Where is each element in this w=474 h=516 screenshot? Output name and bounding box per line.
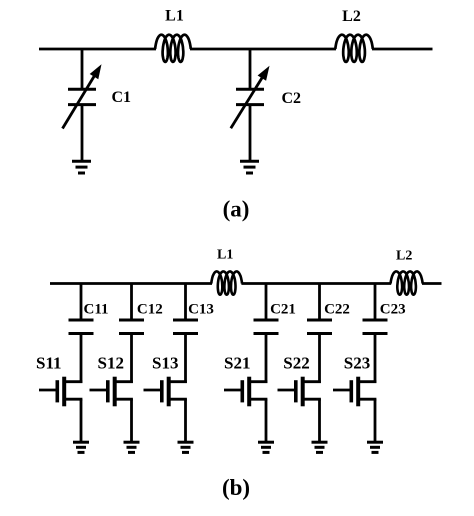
- svg-text:S23: S23: [344, 354, 370, 373]
- svg-text:S13: S13: [152, 354, 178, 373]
- svg-text:C22: C22: [324, 302, 350, 318]
- svg-text:S12: S12: [98, 354, 124, 373]
- svg-text:C23: C23: [380, 302, 406, 318]
- svg-text:(b): (b): [222, 475, 250, 500]
- svg-text:C13: C13: [188, 302, 214, 318]
- svg-text:S22: S22: [283, 354, 309, 373]
- svg-text:C21: C21: [270, 302, 296, 318]
- svg-text:L2: L2: [342, 8, 361, 25]
- svg-text:C1: C1: [112, 89, 132, 106]
- svg-text:C2: C2: [282, 90, 302, 107]
- svg-text:(a): (a): [223, 197, 250, 222]
- svg-text:C11: C11: [84, 302, 109, 318]
- svg-text:C12: C12: [137, 302, 163, 318]
- svg-text:L1: L1: [217, 248, 233, 263]
- svg-text:S21: S21: [224, 354, 250, 373]
- svg-text:L2: L2: [396, 249, 412, 264]
- svg-text:L1: L1: [165, 7, 184, 24]
- svg-text:S11: S11: [36, 354, 62, 373]
